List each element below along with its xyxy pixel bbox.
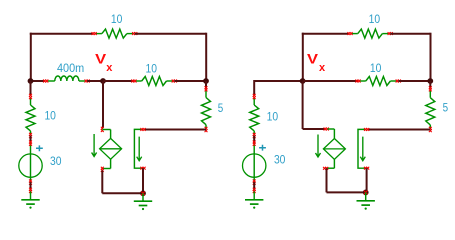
wire top-left vertical (30.5,33.5)-(30.5,81): [30, 33, 32, 81]
inductor L1 400m: [48, 80, 55, 82]
node junction dot left (30.5,81): [28, 78, 34, 84]
resistor R-mid-left 10 (horizontal): [136, 80, 142, 82]
dependent source U2 diamond (CCCS): [323, 139, 345, 160]
resistor R10-left-branch 10 (vertical): [30, 98, 32, 105]
ground G2 (below junction left circuit): [142, 193, 144, 201]
ground G1 (left branch): [29, 188, 32, 191]
svg-text:5: 5: [443, 101, 449, 115]
dependent source U1 diamond (CCCS): [100, 138, 122, 159]
wire top horizontal left segment: [30, 33, 93, 35]
svg-text:10: 10: [369, 12, 381, 26]
svg-text:10: 10: [111, 12, 123, 26]
resistor R-top-right 10 (horizontal): [352, 33, 358, 35]
current arrow I2 (right circuit branch): [358, 129, 367, 168]
resistor R10-right-branch 10 (vertical): [253, 98, 255, 105]
wire stub to R5 (right circuit): [429, 81, 431, 89]
wire middle row: left junction to inductor: [31, 80, 45, 82]
wire top horizontal right segment (right circuit): [390, 33, 430, 35]
wire mid resistor to right junction (right circuit): [398, 80, 430, 82]
wire over to dependent source (right circuit): [303, 128, 325, 130]
node junction dot right column (430.3,81): [427, 78, 433, 84]
wire dep source bottom down and right to junction (right circuit): [326, 168, 328, 192]
svg-text:30: 30: [274, 153, 286, 167]
wire top horizontal left segment (right circuit): [302, 33, 349, 35]
wire stub R10 to source: [30, 136, 32, 144]
resistor R-mid-right 10 (horizontal): [360, 80, 366, 82]
wire right vertical (430.3,33.4)-(430.3,81): [430, 33, 432, 81]
dependent source U2 terminals x (bottom): [323, 167, 326, 170]
svg-text:10: 10: [370, 61, 382, 75]
svg-text:x: x: [319, 62, 326, 74]
voltage source V1 30 (left circuit): [30, 143, 32, 182]
wire stub source to ground: [30, 182, 32, 190]
svg-text:400m: 400m: [57, 61, 84, 75]
label + polarity (right source): [259, 145, 266, 151]
wire Vx node to mid resistor (right circuit): [303, 80, 358, 82]
node junction dot right (206,81): [203, 78, 209, 84]
wire node Vx to mid resistor: [103, 80, 134, 82]
label + polarity (left source): [36, 145, 43, 151]
current arrow I1 (left circuit branch): [134, 129, 143, 168]
svg-text:10: 10: [267, 109, 279, 123]
wire stub right column to R5: [205, 81, 207, 89]
dependent source U1 terminals x (bottom): [101, 167, 104, 170]
wire Vx node down (right circuit): [302, 81, 304, 129]
svg-text:5: 5: [218, 101, 224, 115]
dependent source U1 top lead jog: [102, 129, 110, 131]
svg-text:x: x: [106, 62, 113, 74]
wire left column stub to R10: [30, 81, 32, 95]
voltage source V2 30 (right circuit): [253, 143, 255, 182]
wire stub R10 to source (right circuit): [253, 136, 255, 144]
dependent source U2 terminals x (top): [324, 128, 327, 131]
node bottom junction with x (143,193.3): [140, 190, 146, 196]
dependent source U1 terminals x (top): [101, 127, 104, 130]
node bottom junction with x (365.7,192.4): [363, 190, 369, 196]
ground G4 (right branch): [253, 188, 256, 191]
wire right vertical (206,33.5)-(206,81): [205, 33, 207, 81]
wire R5 bottom to current arrow: [144, 129, 206, 131]
wire dep source bottom down and right to junction: [101, 170, 103, 193]
wire mid resistor to right junction: [174, 80, 206, 82]
node Vx junction dot (302.6,81): [300, 78, 306, 84]
control arrow (left of diamond, right circuit): [316, 135, 321, 158]
resistor R5-left 5 (vertical): [205, 91, 207, 98]
resistor R5-right 5 (vertical): [429, 91, 431, 98]
ground G3 (below junction right circuit): [365, 192, 367, 200]
wire top loop left vertical (302.6,33.4)-(302.6,81): [302, 33, 304, 81]
svg-text:10: 10: [146, 61, 158, 75]
wire current arrow top to R5 (already drawn) / bottom down to junction: [142, 168, 144, 193]
dependent source U1 bottom lead jog: [110, 159, 112, 168]
svg-text:30: 30: [50, 154, 62, 168]
wire far-left column to Vx node (right circuit): [254, 80, 302, 82]
wire R5 bottom to current arrow (right circuit): [368, 129, 431, 131]
svg-text:10: 10: [44, 108, 56, 122]
wire inductor to node Vx: [87, 80, 103, 82]
wire current arrow bottom to junction (right circuit): [366, 168, 368, 192]
dependent source U2 bottom lead jog: [333, 159, 335, 168]
wire top horizontal right segment: [135, 33, 206, 35]
control arrow (left of diamond): [92, 134, 97, 157]
resistor R-top-left 10 (horizontal): [96, 33, 102, 35]
dependent source U2 top lead jog: [327, 128, 334, 130]
node Vx junction dot (103,81): [100, 78, 106, 84]
svg-text:V: V: [307, 51, 319, 67]
wire far-left column vertical (254.2,81)-(254.2,95.4): [253, 80, 255, 95]
wire stub source to ground (right circuit): [253, 182, 255, 190]
wire Vx node down to dependent source: [102, 81, 104, 128]
